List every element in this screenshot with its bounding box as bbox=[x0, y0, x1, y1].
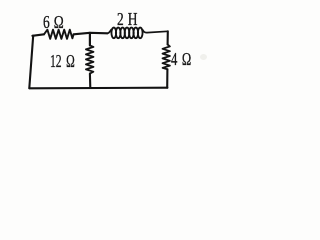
scan smudge bbox=[200, 54, 207, 60]
label 2 H bbox=[117, 9, 137, 30]
inductor L1 2H leads bbox=[107, 30, 168, 34]
label 12 ohm bbox=[50, 51, 75, 72]
wire left edge bbox=[29, 36, 33, 89]
wire right edge bottom bbox=[166, 69, 168, 88]
resistor R3 4ohm bbox=[163, 45, 170, 70]
wire bottom bbox=[29, 87, 167, 90]
wire right edge top bbox=[167, 31, 169, 44]
wire top middle bbox=[74, 33, 108, 35]
label 4 ohm bbox=[171, 49, 191, 70]
label 6 ohm bbox=[43, 12, 64, 33]
resistor R2 12ohm bbox=[86, 45, 94, 73]
wire middle branch bottom bbox=[89, 74, 92, 88]
wire top-left lead bbox=[32, 34, 44, 36]
resistor R1 6ohm bbox=[44, 30, 74, 39]
inductor L1 2H coil loops bbox=[111, 28, 142, 39]
node T junction stub bbox=[89, 33, 91, 46]
